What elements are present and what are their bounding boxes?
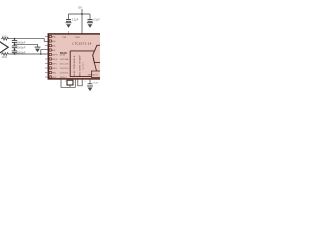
wire 5V supply to VDD pin: [81, 9, 83, 34]
svg-text:REFL: REFL: [52, 68, 58, 70]
pin name labels left column: [52, 36, 58, 80]
svg-text:VCM: VCM: [93, 83, 98, 85]
node on top leg: [14, 38, 16, 40]
resistor R1 10Ω (top leg): [1, 37, 10, 40]
svg-text:1000pF: 1000pF: [16, 46, 25, 50]
component box X1: [67, 80, 73, 85]
lower signal labels second column: [60, 54, 70, 79]
svg-text:0.1μF: 0.1μF: [93, 19, 100, 22]
svg-text:D13_CLK: D13_CLK: [60, 64, 69, 66]
wire bottom leg fork to second AIN- pin: [41, 50, 49, 54]
svg-text:V: V: [85, 81, 87, 83]
ground C4: [66, 22, 72, 28]
pin stubs left side: [45, 37, 48, 78]
wire bottom leg AIN-: [10, 53, 49, 55]
svg-text:CLKOUT-: CLKOUT-: [60, 72, 69, 74]
svg-text:ADC CORE S/H AMP: ADC CORE S/H AMP: [78, 55, 81, 77]
ground input network: [35, 47, 41, 53]
node between C2 C3: [14, 49, 16, 51]
capacitor C5 bypass: [89, 14, 91, 19]
svg-text:GND: GND: [52, 77, 57, 79]
ADC core block: [70, 51, 94, 77]
svg-text:10Ω: 10Ω: [2, 55, 7, 59]
wire supply rail: [69, 13, 91, 15]
ADC flag hexagon: [93, 45, 100, 62]
wire VREF pin down: [89, 79, 91, 83]
svg-text:AIN-: AIN-: [52, 45, 56, 48]
capacitor C4 bypass: [68, 14, 70, 19]
svg-text:PAR: PAR: [52, 72, 57, 75]
svg-text:LTC2271-14: LTC2271-14: [73, 41, 92, 45]
IC U1 ADC body: [48, 34, 102, 79]
svg-text:14-BIT PIPELINED A: 14-BIT PIPELINED A: [73, 55, 76, 76]
stub box to wire: [69, 85, 71, 87]
capacitor C1 1000pF: [14, 39, 16, 41]
amplifier A1 (input driver, clipped at left edge): [0, 41, 8, 53]
capacitor C2 1000pF: [14, 44, 16, 45]
wire bottom loop left: [61, 79, 75, 87]
resistor R2 10Ω (bottom leg): [1, 53, 10, 56]
capacitor VCM plate: [88, 83, 93, 85]
svg-text:CLKOUT+: CLKOUT+: [60, 68, 70, 70]
pin boxes left column: [49, 35, 51, 78]
svg-text:1000pF: 1000pF: [16, 40, 25, 44]
node on bottom leg: [14, 53, 16, 55]
svg-text:10Ω: 10Ω: [2, 34, 7, 38]
node between C1 C2: [14, 43, 16, 45]
ground C5: [87, 22, 93, 28]
svg-text:REFL: REFL: [52, 64, 58, 66]
wire mid node to ground: [15, 44, 38, 46]
output box bottom right: [92, 71, 101, 78]
bottom pin labels: [65, 81, 87, 83]
svg-text:AIN-: AIN-: [52, 49, 56, 52]
wire bottom bracket: [78, 79, 82, 85]
svg-text:SERIAL I/O: SERIAL I/O: [88, 74, 99, 77]
pin stub top edge under C4 ground: [67, 31, 69, 33]
svg-text:OF/D13A: OF/D13A: [60, 58, 69, 61]
svg-text:1000pF: 1000pF: [16, 51, 25, 55]
svg-text:SDI/DC: SDI/DC: [60, 77, 67, 79]
svg-text:MUX: MUX: [60, 51, 68, 55]
svg-text:REFH: REFH: [52, 55, 58, 57]
svg-text:OUTPUT: OUTPUT: [83, 61, 85, 70]
svg-text:5V: 5V: [78, 5, 83, 9]
svg-text:2.2μF: 2.2μF: [72, 19, 79, 22]
svg-text:REFH: REFH: [52, 59, 58, 61]
wire flag to serial box: [93, 58, 96, 71]
wire top leg AIN+: [10, 39, 49, 42]
ground VREF: [87, 86, 93, 92]
node fork: [40, 53, 42, 55]
node supply rail: [81, 13, 83, 15]
capacitor C3 1000pF: [14, 49, 16, 50]
